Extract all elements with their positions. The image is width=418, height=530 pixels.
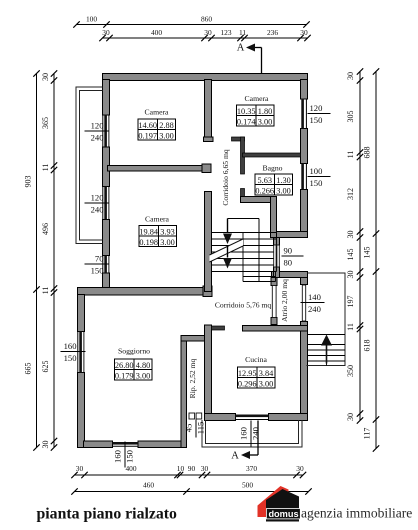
svg-text:150: 150 [310,115,323,125]
dim top outer line [77,24,307,26]
door atrio-corridor leaf [272,286,276,318]
wall: cucina door header stub [212,326,225,330]
svg-text:2.88: 2.88 [159,121,174,130]
svg-text:19.84: 19.84 [139,228,159,237]
svg-text:400: 400 [125,464,136,473]
svg-text:365: 365 [41,117,50,129]
wall: camera1-corridor partition [205,80,212,142]
svg-text:160: 160 [113,450,123,463]
window 70/150 [102,256,104,274]
wall: atrio left partition lower [272,325,277,331]
porch outline [307,273,346,366]
wall: right exterior upper seg1 [301,80,308,100]
svg-text:145: 145 [363,247,372,259]
svg-text:0.266: 0.266 [255,187,274,196]
svg-text:4.80: 4.80 [136,361,151,370]
svg-text:Atrio 2,00 mq: Atrio 2,00 mq [280,279,289,322]
stair break line [210,239,244,262]
svg-text:370: 370 [246,464,257,473]
svg-text:30: 30 [41,441,50,449]
svg-text:688: 688 [363,147,372,159]
svg-text:A: A [237,43,245,54]
svg-text:11: 11 [41,164,50,172]
svg-text:0.198: 0.198 [139,238,158,247]
stair down arrows [227,219,229,233]
svg-text:123: 123 [220,28,231,37]
wall: right exterior upper seg3 [301,190,308,238]
window 120/240 camera1 [102,115,104,148]
svg-text:150: 150 [310,178,323,188]
svg-text:460: 460 [143,481,154,490]
svg-text:240: 240 [91,205,104,215]
dim bottom inner line [75,474,304,476]
svg-text:240: 240 [308,304,321,314]
window 160/150 soggiorno bottom [113,445,139,447]
wall: soggiorno left seg1 [78,295,85,332]
wall: camera1-camera3 partition [108,166,204,172]
svg-text:12.95: 12.95 [238,369,257,378]
svg-text:120: 120 [310,103,323,113]
svg-text:860: 860 [201,15,212,24]
svg-text:45: 45 [184,424,194,433]
window 100/150 bagno [305,164,307,190]
wall: soggiorno bottom seg2 [138,441,187,448]
svg-text:305: 305 [346,111,355,123]
svg-text:1.30: 1.30 [276,176,291,185]
door-window 160/240 cucina bottom [236,419,269,421]
external entrance steps [308,334,346,336]
svg-text:115: 115 [196,422,206,435]
logo domus text box [267,509,301,519]
svg-text:117: 117 [363,428,372,440]
door 140/240 entrance [302,285,305,321]
svg-text:312: 312 [346,188,355,200]
svg-text:30: 30 [201,464,209,473]
wall: left exterior upper seg3 [103,220,110,256]
wall: left exterior upper seg2 [103,147,110,187]
wall: camera2 door header [232,137,245,141]
dim right outer line [375,72,377,449]
wall: top exterior [103,74,308,81]
svg-text:500: 500 [242,481,253,490]
window 160/150 soggiorno [77,332,79,373]
svg-text:11: 11 [346,323,355,331]
window 120/150 camera2 [305,99,307,129]
svg-text:5.63: 5.63 [257,176,272,185]
svg-text:496: 496 [41,223,50,235]
svg-text:3.00: 3.00 [136,372,151,381]
door 45 rip [189,413,195,419]
svg-text:3.00: 3.00 [259,380,274,389]
wall: bagno left [241,189,245,203]
svg-text:70: 70 [95,254,104,264]
wall: soggiorno-rip divider [181,336,187,448]
svg-text:10: 10 [177,464,185,473]
svg-text:618: 618 [363,340,372,352]
svg-text:Camera: Camera [145,108,169,117]
svg-text:10.35: 10.35 [237,107,256,116]
svg-text:160: 160 [64,341,77,351]
svg-text:3.00: 3.00 [160,238,175,247]
wall: landing bottom / atrio top [272,272,308,278]
wall: right exterior lower seg2 [301,322,308,421]
svg-text:11: 11 [346,151,355,159]
wall: atrio left partition jamb bottom [271,318,277,326]
wall: corridor left lower / rip right [205,325,212,420]
svg-text:100: 100 [310,166,323,176]
svg-text:3.84: 3.84 [259,369,274,378]
svg-text:145: 145 [346,249,355,261]
svg-text:Bagno: Bagno [262,164,282,173]
svg-text:140: 140 [308,292,321,302]
svg-text:14.60: 14.60 [138,121,157,130]
svg-text:Rip. 2,52 mq: Rip. 2,52 mq [188,358,197,398]
wall: right exterior upper seg2 [301,129,308,164]
dim bottom outer line [75,491,309,493]
wall: camera1-camera3 jamb [202,164,211,173]
door 90/80 landing [274,245,276,267]
room bagno table [255,174,293,195]
svg-text:0.197: 0.197 [138,132,157,141]
wall: cucina bottom seg2 [269,414,308,421]
svg-text:400: 400 [151,28,162,37]
svg-text:150: 150 [91,266,104,276]
svg-text:domus: domus [268,509,298,519]
svg-text:625: 625 [41,361,50,373]
svg-text:150: 150 [125,450,135,463]
wall: camera2-bagno partition [243,153,301,157]
svg-text:903: 903 [24,176,33,188]
svg-text:150: 150 [64,353,77,363]
svg-text:1.80: 1.80 [258,107,273,116]
svg-text:30: 30 [41,73,50,81]
svg-text:Camera: Camera [245,94,269,103]
balcony top-left outline [76,87,103,244]
svg-text:0.296: 0.296 [238,380,257,389]
svg-text:30: 30 [76,464,84,473]
svg-text:11: 11 [41,287,50,295]
room soggiorno table [115,359,153,380]
wall: stair landing top [272,232,308,238]
dim top inner line [103,37,308,39]
svg-text:240: 240 [91,133,104,143]
svg-text:350: 350 [346,365,355,377]
svg-text:Corridoio 6,65 mq: Corridoio 6,65 mq [221,149,230,206]
room camera1 table [138,119,176,140]
svg-text:236: 236 [267,28,278,37]
stairwell treads [228,218,260,220]
svg-text:0.174: 0.174 [237,118,257,127]
svg-text:11: 11 [239,28,246,37]
svg-text:Camera: Camera [145,215,169,224]
dim right inner line [359,72,361,421]
dim left outer line [36,74,38,448]
svg-text:120: 120 [91,121,104,131]
wall: stair right upper [274,238,280,246]
svg-text:30: 30 [346,72,355,80]
svg-text:30: 30 [102,28,110,37]
wall: rip top [181,336,205,342]
svg-text:30: 30 [204,28,212,37]
room camera3 table [139,226,177,247]
wall: bagno bottom [241,197,277,203]
svg-text:26.80: 26.80 [115,361,134,370]
svg-text:3.93: 3.93 [160,228,175,237]
svg-text:Soggiorno: Soggiorno [118,347,150,356]
wall: corridor right partition [241,137,245,174]
svg-text:pianta piano rialzato: pianta piano rialzato [37,506,178,523]
svg-text:Corridoio 5,76 mq: Corridoio 5,76 mq [215,301,272,310]
wall: camera1 partition foot [204,137,214,142]
svg-text:100: 100 [86,15,97,24]
wall: stair right lower [274,267,280,278]
room cucina table [238,367,276,388]
svg-text:90: 90 [284,246,293,256]
svg-text:80: 80 [284,258,293,268]
wall: left exterior upper seg4 [103,273,110,289]
wall: bagno bottom right turn [271,197,277,238]
wall: left exterior upper seg1 [103,80,110,116]
svg-text:665: 665 [24,363,33,375]
wall: soggiorno left seg2 [78,373,85,448]
svg-text:197: 197 [346,296,355,308]
dim left inner line [53,74,55,448]
wall: soggiorno top [78,288,205,296]
balcony bottom outline [202,420,302,447]
svg-text:Cucina: Cucina [245,355,267,364]
logo domus black house [266,489,299,522]
wall: atrio left partition jamb top [271,278,277,286]
window 120/240 camera3 [102,187,104,220]
entrance up arrow [326,345,328,364]
svg-text:agenzia immobiliare: agenzia immobiliare [301,506,412,521]
svg-text:0.179: 0.179 [115,372,134,381]
svg-text:30: 30 [346,271,355,279]
room camera2 table [237,105,275,126]
svg-text:120: 120 [91,193,104,203]
svg-text:30: 30 [346,413,355,421]
svg-text:160: 160 [239,427,249,440]
svg-text:3.00: 3.00 [258,118,273,127]
wall: soggiorno bottom seg1 [84,441,113,448]
svg-text:A: A [231,451,239,462]
wall: right exterior lower seg1 [301,278,308,285]
wall: corridor left [205,192,212,292]
svg-text:3.00: 3.00 [276,187,291,196]
svg-text:3.00: 3.00 [159,132,174,141]
wall: cucina top [243,326,308,332]
logo domus red roof [258,486,289,517]
svg-text:30: 30 [346,231,355,239]
wall: cucina bottom seg1 [205,414,236,421]
svg-text:90: 90 [188,464,196,473]
svg-text:240: 240 [251,427,261,440]
svg-text:30: 30 [296,464,304,473]
svg-text:30: 30 [300,28,308,37]
wall: soggiorno top jamb [203,286,212,297]
